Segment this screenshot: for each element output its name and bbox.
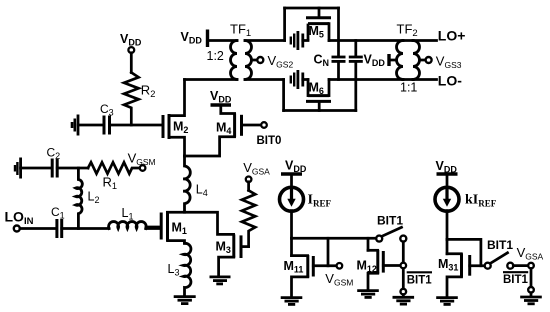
svg-text:TF2: TF2 (397, 22, 418, 40)
svg-text:VDD: VDD (120, 32, 142, 48)
svg-text:TF1: TF1 (230, 22, 251, 40)
svg-text:R2: R2 (141, 83, 156, 100)
svg-text:M4: M4 (216, 121, 231, 137)
svg-text:VGSM: VGSM (128, 150, 156, 167)
svg-text:L3: L3 (168, 262, 180, 278)
svg-text:VDD: VDD (364, 53, 386, 69)
svg-text:VDD: VDD (436, 159, 458, 175)
svg-text:VGSM: VGSM (325, 271, 353, 288)
svg-text:L1: L1 (122, 206, 134, 222)
svg-text:IREF: IREF (308, 193, 332, 209)
svg-text:M6: M6 (309, 81, 324, 97)
svg-text:VDD: VDD (285, 159, 307, 175)
svg-text:C2: C2 (47, 146, 61, 162)
svg-text:VGS3: VGS3 (436, 54, 462, 71)
svg-text:M12: M12 (357, 259, 377, 275)
svg-text:BIT1: BIT1 (503, 274, 529, 286)
svg-text:BIT1: BIT1 (377, 214, 403, 228)
svg-text:BIT0: BIT0 (257, 135, 282, 147)
svg-text:M3: M3 (216, 240, 231, 256)
svg-text:M1: M1 (172, 221, 187, 237)
svg-text:VGSA: VGSA (517, 245, 544, 262)
svg-text:VGSA: VGSA (243, 160, 270, 177)
svg-text:VGS2: VGS2 (268, 53, 294, 70)
svg-text:L4: L4 (196, 183, 208, 199)
svg-text:M31: M31 (438, 257, 458, 273)
svg-text:L2: L2 (88, 190, 100, 206)
svg-text:LOIN: LOIN (5, 208, 34, 227)
svg-text:R1: R1 (103, 174, 118, 191)
svg-text:M5: M5 (309, 24, 324, 40)
svg-text:BIT1: BIT1 (407, 274, 433, 286)
svg-text:C3: C3 (100, 102, 114, 118)
svg-text:VDD: VDD (181, 30, 203, 46)
svg-text:M11: M11 (284, 259, 304, 275)
svg-text:1:1: 1:1 (400, 81, 417, 95)
svg-text:1:2: 1:2 (207, 49, 224, 63)
svg-text:BIT1: BIT1 (487, 238, 513, 252)
svg-text:C1: C1 (51, 205, 65, 221)
svg-text:M2: M2 (173, 120, 188, 136)
svg-text:CN: CN (314, 53, 330, 69)
svg-text:LO+: LO+ (438, 27, 466, 43)
svg-text:VDD: VDD (210, 89, 232, 105)
svg-text:LO-: LO- (438, 72, 462, 88)
svg-text:kIREF: kIREF (465, 193, 497, 209)
